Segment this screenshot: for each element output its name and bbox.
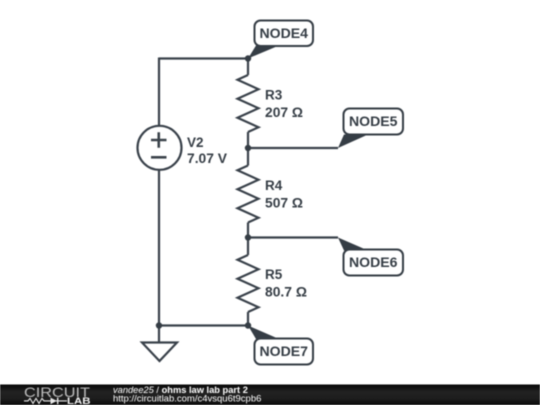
node label NODE6 <box>344 250 404 276</box>
wire top horizontal <box>159 57 248 59</box>
node label NODE7 <box>255 339 314 365</box>
junction node E (left bottom) <box>156 322 162 328</box>
V2 minus sign <box>151 156 167 159</box>
svg-text:LAB: LAB <box>67 396 91 405</box>
footer bar <box>0 385 540 405</box>
junction node C (NODE6) <box>245 234 251 240</box>
resistor R5 <box>238 255 259 312</box>
wire NODE6 stub <box>248 236 338 238</box>
svg-text:207 Ω: 207 Ω <box>265 105 303 120</box>
wire R5 to NODE7 <box>247 312 249 326</box>
resistor R4 <box>238 166 259 223</box>
V2 plus sign <box>151 132 167 157</box>
wire NODE5 to R4 <box>247 148 249 166</box>
wire left upper <box>158 58 160 127</box>
node label NODE4 <box>255 21 314 47</box>
svg-text:NODE7: NODE7 <box>260 344 309 359</box>
svg-text:NODE4: NODE4 <box>260 26 309 41</box>
callout tail NODE5 <box>338 135 368 149</box>
svg-text:NODE6: NODE6 <box>349 255 398 270</box>
svg-text:7.07 V: 7.07 V <box>187 151 227 166</box>
wire left lower <box>158 170 160 343</box>
logo diode <box>51 398 59 405</box>
logo resistor zigzag <box>24 398 48 403</box>
wire R4 to NODE6 <box>247 223 249 238</box>
svg-text:507 Ω: 507 Ω <box>265 195 303 210</box>
wire R3 to NODE5 <box>247 132 249 148</box>
wire bottom horizontal <box>159 324 248 326</box>
resistor R3 <box>238 75 259 132</box>
wire chain segment NODE4 to R3 <box>247 59 249 76</box>
logo line to LAB <box>48 400 67 402</box>
ground <box>142 343 177 362</box>
wire NODE5 stub <box>248 147 338 149</box>
callout tail NODE4 <box>248 46 279 59</box>
svg-text:R3: R3 <box>265 88 283 103</box>
voltage source V2 circle <box>138 126 182 170</box>
svg-text:R5: R5 <box>265 267 283 282</box>
junction node D (NODE7) <box>245 322 251 328</box>
junction node B (NODE5) <box>245 145 251 151</box>
wire NODE6 to R5 <box>247 238 249 256</box>
callout tail NODE7 <box>248 326 279 340</box>
callout tail NODE6 <box>338 238 368 251</box>
svg-text:NODE5: NODE5 <box>349 114 398 129</box>
svg-text:V2: V2 <box>187 135 204 150</box>
svg-text:http://circuitlab.com/c4vsqu6t: http://circuitlab.com/c4vsqu6t9cpb6 <box>113 394 261 405</box>
svg-text:80.7 Ω: 80.7 Ω <box>265 284 307 299</box>
node label NODE5 <box>344 109 404 135</box>
svg-text:R4: R4 <box>265 178 283 193</box>
junction node A (NODE4) <box>245 55 251 61</box>
